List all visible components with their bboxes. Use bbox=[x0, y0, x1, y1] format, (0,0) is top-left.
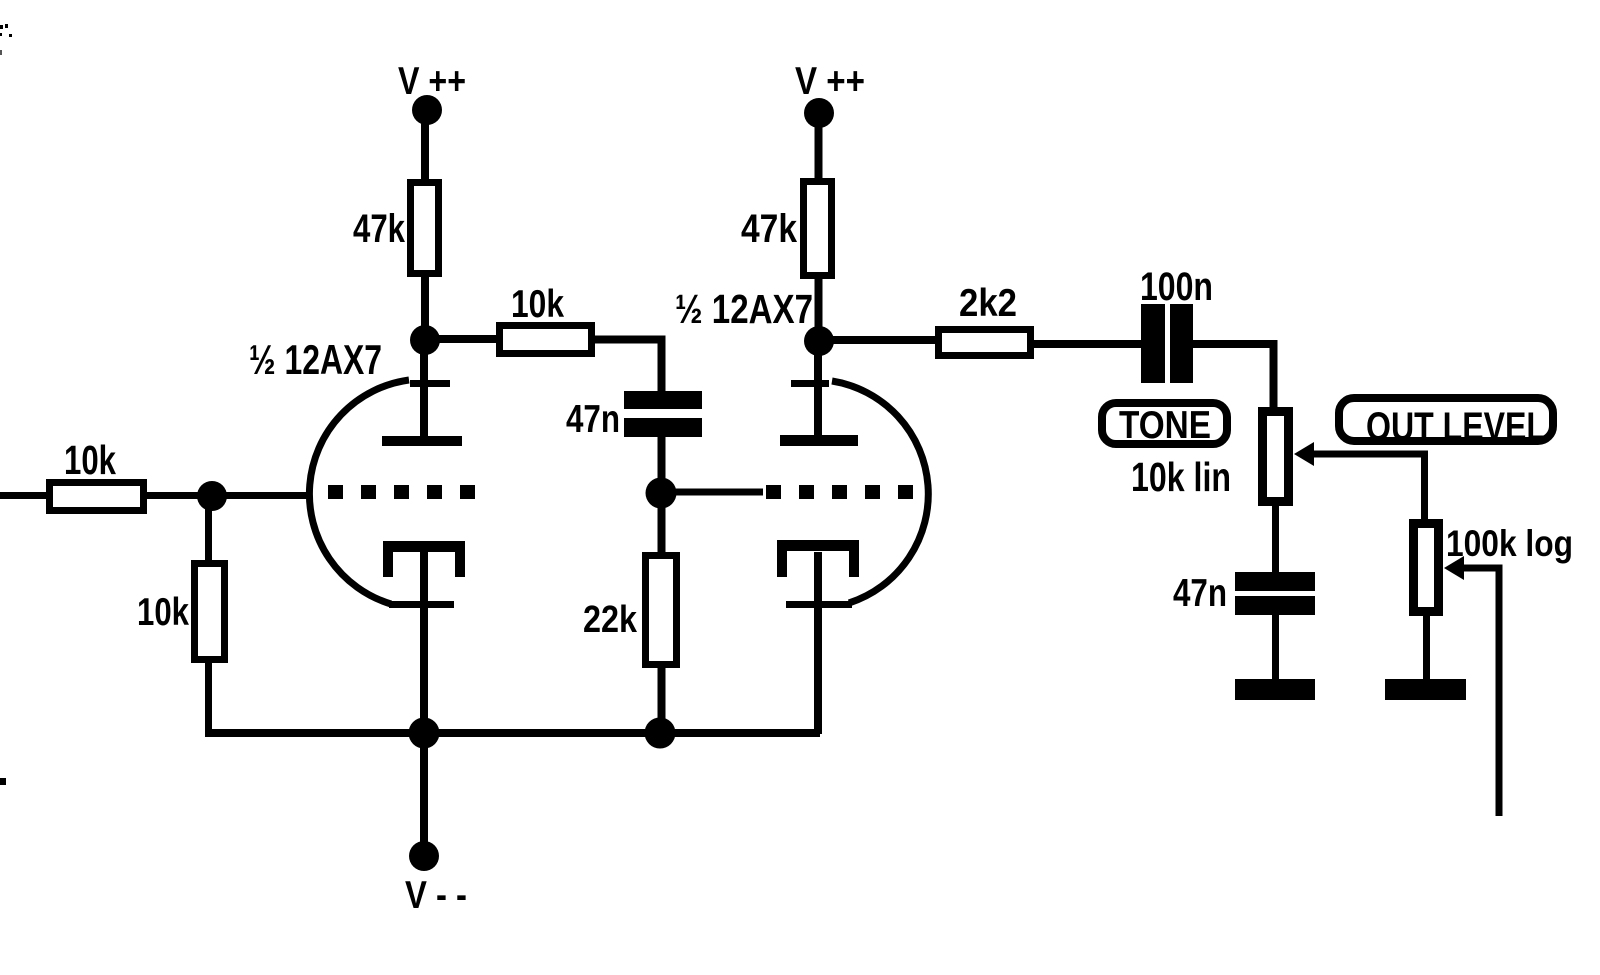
tube V2 cathode legs bbox=[777, 551, 787, 577]
svg-text:TONE: TONE bbox=[1119, 404, 1211, 447]
tube V1 plate bar bbox=[382, 436, 462, 446]
wire 2k2 to 100n cap bbox=[1034, 340, 1142, 348]
wire V2 plate node to 2k2 bbox=[830, 336, 938, 344]
svg-text:OUT LEVEL: OUT LEVEL bbox=[1366, 405, 1546, 449]
node dot V1 plate bbox=[410, 325, 440, 355]
tube V2 plate bar bbox=[780, 435, 858, 446]
label box TONE bbox=[1102, 403, 1227, 444]
tube V1 grid dashes bbox=[328, 485, 343, 499]
svg-text:½ 12AX7: ½ 12AX7 bbox=[675, 286, 813, 332]
svg-text:100n: 100n bbox=[1140, 265, 1213, 309]
ground tone bbox=[1235, 679, 1315, 700]
wire 47n cap to node B bbox=[658, 436, 666, 494]
svg-text:47n: 47n bbox=[566, 398, 620, 441]
node dot input bbox=[197, 481, 227, 511]
wire node B down to 22k bbox=[658, 493, 666, 556]
tube V2 envelope top tick bbox=[791, 380, 829, 387]
wire V2 plate supply bbox=[815, 125, 823, 182]
svg-text:47n: 47n bbox=[1173, 572, 1227, 615]
tube V1 envelope top tick bbox=[410, 380, 450, 387]
wire 10k vertical to bottom bus bbox=[205, 662, 212, 734]
resistor R 2k2 bbox=[939, 330, 1031, 356]
wire bottom bus bbox=[205, 729, 820, 737]
wire input left bbox=[0, 492, 47, 499]
tube V2 envelope bottom tick bbox=[786, 601, 852, 608]
terminal dot V++ (V2) bbox=[804, 98, 834, 128]
tube V2 grid dashes bbox=[766, 485, 781, 499]
wire V1 plate supply bbox=[421, 120, 429, 182]
tube V1 cathode bar bbox=[383, 541, 465, 552]
capacitor 47n coupling plates bbox=[624, 391, 702, 409]
terminal dot V-- bbox=[409, 841, 439, 871]
svg-text:47k: 47k bbox=[741, 207, 798, 251]
svg-text:10k: 10k bbox=[137, 591, 189, 634]
wire tone wiper to out level pot bbox=[1313, 454, 1425, 521]
wire R10k to node A bbox=[146, 492, 212, 499]
resistor R 22k bbox=[646, 556, 677, 665]
wire V2 plate lead bbox=[814, 348, 822, 438]
svg-text:V - -: V - - bbox=[405, 874, 467, 917]
node dot bus right bbox=[645, 718, 676, 749]
svg-text:10k: 10k bbox=[64, 437, 116, 483]
wire 100n cap to tone pot bbox=[1193, 344, 1274, 409]
node dot bus left bbox=[409, 718, 440, 749]
svg-text:½ 12AX7: ½ 12AX7 bbox=[249, 336, 382, 383]
wire node A down bbox=[205, 496, 212, 561]
svg-text:22k: 22k bbox=[583, 599, 638, 641]
tube V1 envelope arc bbox=[309, 380, 409, 604]
resistor R 47k V2 plate bbox=[804, 182, 832, 276]
svg-text:2k2: 2k2 bbox=[959, 282, 1017, 325]
wire output from wiper down bbox=[1463, 568, 1499, 816]
wire node A to tube V1 grid bbox=[212, 492, 312, 499]
wire 22k to bottom bus bbox=[658, 666, 666, 734]
svg-text:V ++: V ++ bbox=[398, 60, 466, 103]
tube V2 cathode bar bbox=[777, 540, 859, 551]
node dot V2 plate bbox=[804, 326, 834, 356]
svg-text:100k log: 100k log bbox=[1446, 523, 1573, 564]
resistor R 10k coupling (horizontal) bbox=[500, 326, 592, 354]
tube V2 envelope arc bbox=[832, 381, 928, 603]
svg-text:V ++: V ++ bbox=[795, 60, 865, 103]
resistor R 10k input (horizontal) bbox=[50, 483, 144, 511]
potentiometer 100k log body bbox=[1414, 524, 1439, 612]
capacitor 100n plates bbox=[1141, 304, 1165, 383]
arrow wiper 100k pot bbox=[1444, 556, 1464, 580]
wire V1 plate lead bbox=[420, 348, 428, 438]
wire plate node to 10k coupling bbox=[438, 335, 500, 343]
resistor R 10k grid (vertical) bbox=[195, 564, 225, 660]
label box OUT LEVEL bbox=[1339, 398, 1553, 441]
wire 47n cap to ground bbox=[1272, 614, 1279, 681]
wire 47k to plate node bbox=[421, 275, 429, 333]
capacitor 47n tone plates bbox=[1235, 572, 1315, 591]
tube V1 envelope bottom tick bbox=[389, 601, 454, 608]
svg-text:10k: 10k bbox=[511, 283, 564, 326]
svg-text:10k lin: 10k lin bbox=[1131, 454, 1231, 500]
wire 47k to V2 plate node bbox=[815, 277, 823, 334]
ground out level bbox=[1385, 679, 1466, 700]
wire 10k coupling to 47n cap bbox=[595, 340, 662, 392]
svg-text:47k: 47k bbox=[353, 207, 406, 251]
resistor R 47k V1 plate bbox=[411, 183, 439, 274]
terminal dot V++ (V1) bbox=[412, 95, 442, 125]
potentiometer 10k lin body bbox=[1263, 412, 1289, 502]
speckle artifacts top-left bbox=[0, 25, 3, 29]
wire 100k pot to ground bbox=[1423, 614, 1430, 681]
node dot B (V2 grid) bbox=[646, 478, 677, 509]
arrow wiper tone pot bbox=[1294, 442, 1314, 466]
speckle artifact left edge bbox=[0, 778, 6, 785]
tube V1 cathode legs bbox=[383, 552, 393, 577]
wire node B to tube V2 grid bbox=[661, 489, 763, 496]
wire tone pot to 47n cap bbox=[1272, 504, 1279, 573]
wire V2 cathode lead bbox=[814, 552, 822, 734]
wire V1 cathode lead down to V-- bbox=[420, 552, 428, 845]
